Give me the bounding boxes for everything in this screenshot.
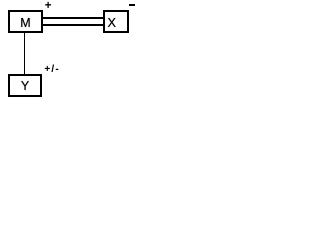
- block Y: [8, 74, 42, 97]
- wire lower M-X: [43, 24, 103, 26]
- node plus-minus label at Y: [44, 65, 60, 75]
- block M: [8, 10, 43, 33]
- wire M-Y vertical: [24, 32, 26, 74]
- node plus label at M: [45, 1, 52, 13]
- wire upper M-X: [43, 17, 103, 19]
- node minus label at X: [129, 4, 135, 6]
- block X: [103, 10, 129, 33]
